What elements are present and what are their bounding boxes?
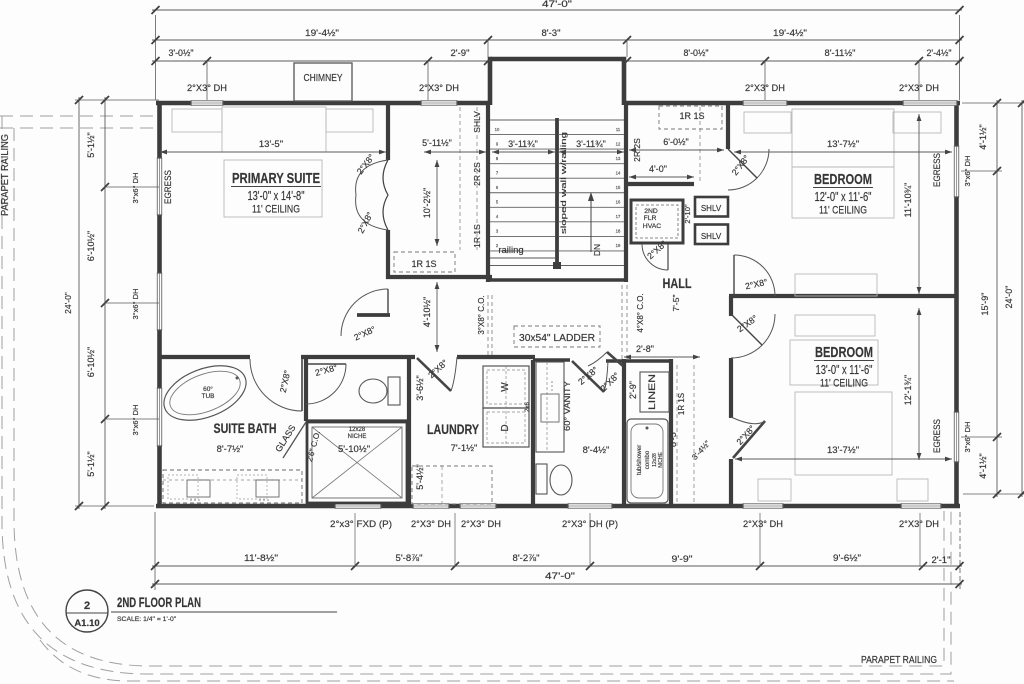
svg-text:2°X3° DH: 2°X3° DH — [745, 83, 785, 94]
svg-text:11' CEILING: 11' CEILING — [820, 378, 868, 390]
svg-text:3°x6° DH: 3°x6° DH — [963, 421, 972, 452]
svg-text:2°X3° DH (P): 2°X3° DH (P) — [562, 519, 618, 530]
svg-text:6'-10½": 6'-10½" — [86, 231, 96, 261]
svg-text:8'-11½": 8'-11½" — [825, 48, 856, 58]
svg-text:1R 1S: 1R 1S — [472, 224, 482, 248]
svg-text:2'-9": 2'-9" — [451, 48, 470, 58]
svg-text:9'-9": 9'-9" — [672, 554, 693, 564]
svg-text:2R 2S: 2R 2S — [472, 162, 482, 186]
svg-text:tub/shower: tub/shower — [636, 445, 643, 475]
svg-text:4'-10½": 4'-10½" — [422, 297, 432, 327]
svg-text:8'-5": 8'-5" — [668, 429, 678, 447]
svg-text:4'-1½": 4'-1½" — [978, 453, 988, 478]
svg-text:11' CEILING: 11' CEILING — [252, 204, 300, 216]
svg-text:19'-4½": 19'-4½" — [305, 28, 339, 38]
svg-text:2ND: 2ND — [644, 208, 658, 215]
svg-text:2'-9": 2'-9" — [628, 381, 638, 399]
svg-text:sloped wall w/railing: sloped wall w/railing — [559, 132, 568, 234]
svg-text:SUITE BATH: SUITE BATH — [214, 421, 277, 436]
svg-text:NICHE: NICHE — [348, 434, 367, 440]
svg-text:2'-8": 2'-8" — [636, 344, 654, 354]
svg-text:13'-5": 13'-5" — [259, 139, 283, 150]
svg-text:5'-1½": 5'-1½" — [86, 451, 96, 476]
svg-text:NICHE: NICHE — [658, 452, 664, 468]
svg-text:2R 2S: 2R 2S — [632, 138, 642, 162]
svg-text:7'-5": 7'-5" — [671, 295, 681, 312]
svg-text:47'-0": 47'-0" — [545, 571, 575, 581]
svg-text:DN: DN — [592, 244, 602, 256]
svg-text:2'-1": 2'-1" — [932, 555, 951, 565]
svg-text:8'-3": 8'-3" — [542, 28, 561, 38]
svg-text:17: 17 — [616, 214, 621, 219]
svg-text:4'-1½": 4'-1½" — [978, 124, 988, 149]
svg-text:HALL: HALL — [663, 276, 692, 291]
svg-text:12: 12 — [616, 142, 621, 147]
svg-text:EGRESS: EGRESS — [163, 170, 174, 204]
svg-text:LINEN: LINEN — [647, 374, 658, 410]
svg-text:PRIMARY SUITE: PRIMARY SUITE — [232, 170, 320, 187]
svg-text:BEDROOM: BEDROOM — [815, 344, 873, 361]
svg-text:6'-0½": 6'-0½" — [663, 137, 688, 147]
svg-text:HVAC: HVAC — [643, 223, 661, 230]
svg-text:13'-0" x 11'-6": 13'-0" x 11'-6" — [816, 363, 873, 377]
svg-text:24'-0": 24'-0" — [63, 292, 73, 314]
svg-text:47'-0": 47'-0" — [542, 0, 572, 9]
svg-text:2°X3° DH: 2°X3° DH — [411, 519, 451, 530]
svg-text:11: 11 — [616, 127, 621, 132]
svg-text:6'-10½": 6'-10½" — [86, 347, 96, 377]
svg-text:15'-9": 15'-9" — [980, 293, 990, 316]
svg-text:5'-4½": 5'-4½" — [415, 464, 425, 489]
svg-text:BEDROOM: BEDROOM — [814, 171, 872, 188]
svg-text:3°x6° DH: 3°x6° DH — [131, 172, 140, 203]
svg-text:SCALE: 1/4" = 1'-0": SCALE: 1/4" = 1'-0" — [117, 616, 177, 623]
svg-text:2ND FLOOR PLAN: 2ND FLOOR PLAN — [117, 595, 201, 610]
svg-text:4'-0": 4'-0" — [649, 164, 667, 174]
svg-text:W: W — [500, 382, 511, 392]
svg-text:2°x3° FXD (P): 2°x3° FXD (P) — [330, 519, 392, 530]
svg-text:5'-11½": 5'-11½" — [422, 138, 452, 148]
svg-text:2°X3° DH: 2°X3° DH — [187, 83, 227, 94]
svg-text:2°X3° DH: 2°X3° DH — [461, 519, 501, 530]
svg-text:19: 19 — [616, 243, 621, 248]
svg-text:11'-10¾": 11'-10¾" — [903, 183, 913, 218]
svg-text:1R 1S: 1R 1S — [411, 259, 436, 269]
svg-text:12'-1¾": 12'-1¾" — [903, 375, 913, 405]
svg-text:3°X8° C.O.: 3°X8° C.O. — [477, 295, 486, 334]
svg-text:7'-1½": 7'-1½" — [451, 443, 478, 454]
svg-text:5'-1½": 5'-1½" — [86, 132, 96, 157]
svg-text:2°X3° DH: 2°X3° DH — [743, 519, 783, 530]
svg-text:15: 15 — [616, 185, 621, 190]
svg-text:1R 1S: 1R 1S — [679, 111, 704, 121]
svg-text:5'-8⅞": 5'-8⅞" — [396, 553, 423, 563]
svg-text:A1.10: A1.10 — [74, 618, 99, 629]
svg-text:18: 18 — [616, 229, 621, 234]
svg-text:13: 13 — [616, 156, 621, 161]
svg-text:2°X3° DH: 2°X3° DH — [899, 519, 939, 530]
svg-text:4°X8° C.O.: 4°X8° C.O. — [636, 293, 645, 332]
svg-text:D: D — [500, 424, 511, 431]
svg-text:30x54" LADDER: 30x54" LADDER — [519, 333, 595, 344]
svg-text:3°x6° DH: 3°x6° DH — [963, 155, 972, 186]
svg-text:13'-7½": 13'-7½" — [827, 139, 859, 150]
svg-text:2x6: 2x6 — [525, 402, 531, 412]
svg-text:60°: 60° — [203, 385, 213, 393]
svg-text:3'-11¾": 3'-11¾" — [508, 139, 538, 149]
svg-text:FLR: FLR — [644, 215, 657, 222]
svg-text:2'-4½": 2'-4½" — [927, 48, 952, 58]
svg-text:EGRESS: EGRESS — [932, 419, 943, 453]
svg-text:2°X3° DH: 2°X3° DH — [899, 83, 939, 94]
svg-text:2°X3° DH: 2°X3° DH — [419, 83, 459, 94]
svg-text:12'-0" x 11'-6": 12'-0" x 11'-6" — [815, 190, 872, 204]
svg-text:10: 10 — [495, 127, 500, 132]
svg-text:13'-7½": 13'-7½" — [827, 445, 859, 456]
svg-text:2: 2 — [84, 600, 90, 612]
svg-text:16: 16 — [616, 200, 621, 205]
svg-text:3'-11¾": 3'-11¾" — [576, 139, 606, 149]
svg-text:13'-0" x 14'-8": 13'-0" x 14'-8" — [248, 189, 305, 203]
svg-text:14: 14 — [616, 171, 621, 176]
svg-text:2'-10": 2'-10" — [683, 204, 692, 223]
svg-text:24'-0": 24'-0" — [1004, 286, 1014, 309]
svg-text:1R 1S: 1R 1S — [677, 393, 686, 415]
svg-text:11'-8½": 11'-8½" — [244, 553, 278, 563]
svg-text:SHLV: SHLV — [701, 232, 722, 241]
svg-text:EGRESS: EGRESS — [932, 153, 943, 187]
svg-text:SHLV: SHLV — [701, 204, 722, 213]
svg-text:8'-0½": 8'-0½" — [684, 48, 709, 58]
svg-text:11' CEILING: 11' CEILING — [819, 205, 867, 217]
svg-text:8'-4½": 8'-4½" — [583, 445, 610, 456]
svg-text:3°x6° DH: 3°x6° DH — [131, 404, 140, 435]
svg-text:SHLV: SHLV — [472, 111, 482, 133]
svg-text:PARAPET RAILING: PARAPET RAILING — [0, 134, 11, 216]
svg-text:9'-6½": 9'-6½" — [833, 553, 861, 563]
svg-text:8'-2⅞": 8'-2⅞" — [513, 553, 540, 563]
svg-text:19'-4½": 19'-4½" — [773, 28, 807, 38]
svg-text:3°x6° DH: 3°x6° DH — [131, 288, 140, 319]
svg-text:LAUNDRY: LAUNDRY — [427, 422, 479, 437]
svg-text:5'-10½": 5'-10½" — [338, 444, 370, 455]
svg-text:12x28: 12x28 — [349, 427, 366, 433]
svg-text:8'-7½": 8'-7½" — [217, 444, 244, 455]
svg-text:3'-0½": 3'-0½" — [169, 48, 194, 58]
svg-text:combo: combo — [644, 450, 651, 469]
svg-text:PARAPET RAILING: PARAPET RAILING — [861, 654, 937, 666]
svg-text:CHIMNEY: CHIMNEY — [304, 73, 343, 84]
svg-text:railing: railing — [498, 245, 523, 256]
svg-text:10'-2½": 10'-2½" — [422, 188, 432, 218]
svg-text:3'-6½": 3'-6½" — [415, 375, 425, 400]
svg-text:60° VANITY: 60° VANITY — [562, 381, 572, 431]
svg-text:TUB: TUB — [202, 393, 215, 400]
